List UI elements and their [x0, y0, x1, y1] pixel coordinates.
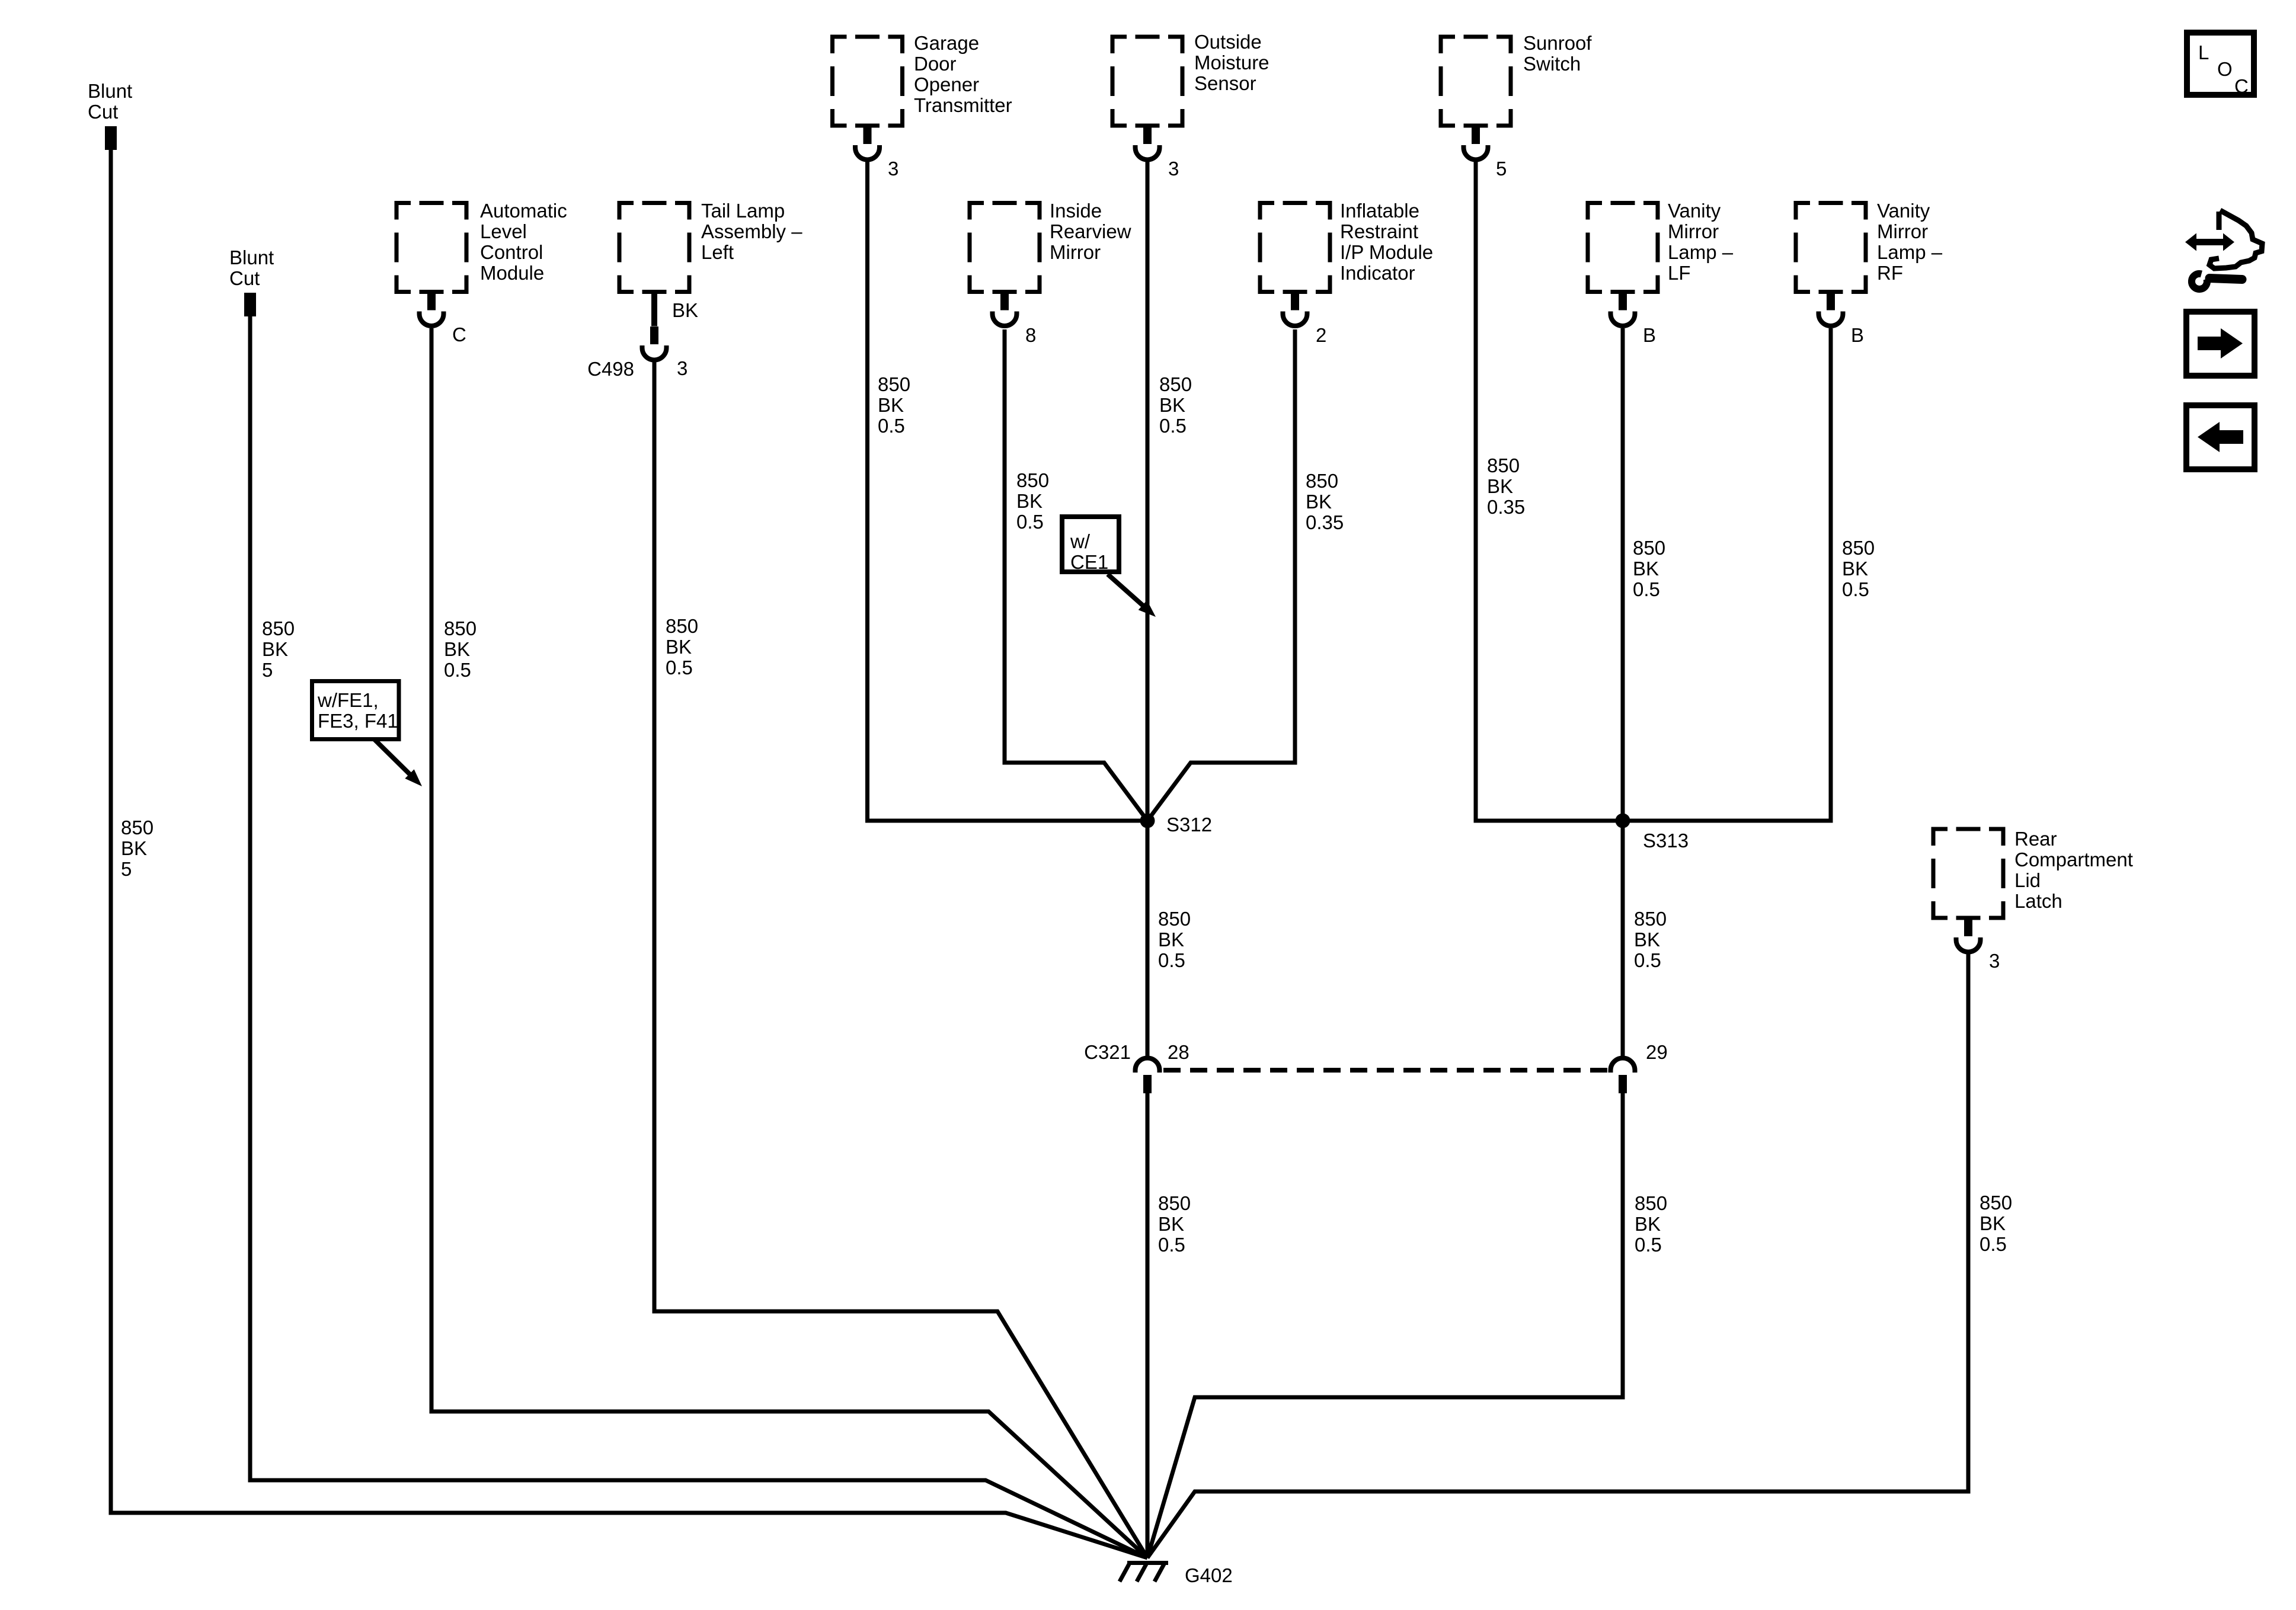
svg-text:850: 850 [121, 817, 154, 838]
svg-text:S313: S313 [1643, 830, 1689, 852]
svg-text:B: B [1851, 324, 1864, 346]
svg-text:850: 850 [1634, 908, 1667, 930]
svg-text:BK: BK [1634, 929, 1660, 950]
svg-text:S312: S312 [1166, 814, 1212, 836]
svg-text:0.5: 0.5 [1980, 1233, 2007, 1255]
svg-text:BK: BK [1016, 490, 1043, 512]
svg-text:850: 850 [1980, 1192, 2012, 1214]
svg-text:850: 850 [1158, 1192, 1191, 1214]
svg-text:Opener: Opener [914, 73, 979, 95]
svg-text:850: 850 [1635, 1192, 1667, 1214]
svg-text:BK: BK [1635, 1213, 1661, 1235]
svg-text:Inflatable: Inflatable [1340, 200, 1419, 222]
svg-text:0.5: 0.5 [878, 415, 905, 437]
svg-text:BK: BK [1842, 558, 1868, 580]
svg-text:0.5: 0.5 [1016, 511, 1044, 533]
svg-text:850: 850 [878, 373, 910, 395]
svg-text:Automatic: Automatic [480, 200, 567, 222]
svg-text:Transmitter: Transmitter [914, 94, 1012, 116]
svg-text:Outside: Outside [1194, 31, 1262, 53]
svg-text:FE3, F41: FE3, F41 [318, 710, 398, 732]
svg-text:Mirror: Mirror [1050, 241, 1101, 263]
svg-text:0.35: 0.35 [1487, 496, 1525, 518]
svg-text:Sunroof: Sunroof [1523, 32, 1592, 54]
svg-text:BK: BK [666, 636, 692, 658]
svg-text:BK: BK [1306, 491, 1332, 513]
svg-text:BK: BK [444, 638, 470, 660]
svg-text:850: 850 [1158, 908, 1191, 930]
svg-text:0.35: 0.35 [1306, 511, 1344, 533]
svg-text:5: 5 [1496, 158, 1507, 180]
svg-text:850: 850 [262, 617, 295, 639]
svg-text:850: 850 [1842, 537, 1875, 559]
svg-text:8: 8 [1025, 324, 1036, 346]
svg-text:C498: C498 [587, 358, 634, 380]
svg-text:0.5: 0.5 [1635, 1234, 1662, 1256]
svg-text:Lid: Lid [2014, 869, 2041, 891]
svg-text:0.5: 0.5 [1158, 949, 1185, 971]
svg-text:BK: BK [878, 394, 904, 416]
svg-text:Lamp –: Lamp – [1877, 241, 1943, 263]
svg-text:Control: Control [480, 241, 543, 263]
svg-text:Door: Door [914, 53, 957, 75]
svg-text:850: 850 [1159, 373, 1192, 395]
svg-text:Inside: Inside [1050, 200, 1102, 222]
svg-text:5: 5 [121, 858, 132, 880]
svg-text:BK: BK [1158, 1213, 1184, 1235]
svg-text:Switch: Switch [1523, 53, 1581, 75]
svg-text:0.5: 0.5 [1842, 578, 1869, 600]
svg-text:BK: BK [1159, 394, 1185, 416]
svg-text:0.5: 0.5 [1158, 1234, 1185, 1256]
svg-text:850: 850 [1306, 470, 1338, 492]
svg-text:0.5: 0.5 [666, 657, 693, 678]
svg-text:C: C [2234, 75, 2249, 97]
svg-text:Lamp –: Lamp – [1668, 241, 1734, 263]
svg-text:0.5: 0.5 [1633, 578, 1660, 600]
svg-text:BK: BK [262, 638, 288, 660]
svg-text:2: 2 [1316, 324, 1326, 346]
svg-text:Mirror: Mirror [1668, 220, 1719, 242]
svg-text:28: 28 [1168, 1041, 1189, 1063]
svg-text:3: 3 [1168, 158, 1179, 180]
svg-text:Vanity: Vanity [1668, 200, 1721, 222]
svg-text:Sensor: Sensor [1194, 72, 1256, 94]
svg-text:BK: BK [1487, 475, 1513, 497]
svg-text:L: L [2198, 41, 2209, 63]
svg-text:0.5: 0.5 [1634, 949, 1661, 971]
svg-text:3: 3 [1989, 950, 2000, 972]
svg-text:BK: BK [672, 299, 698, 321]
svg-text:5: 5 [262, 659, 273, 681]
svg-text:29: 29 [1646, 1041, 1668, 1063]
svg-text:Garage: Garage [914, 32, 979, 54]
svg-text:850: 850 [666, 615, 698, 637]
svg-text:C: C [452, 324, 466, 345]
svg-text:I/P Module: I/P Module [1340, 241, 1433, 263]
svg-text:0.5: 0.5 [1159, 415, 1187, 437]
svg-text:0.5: 0.5 [444, 659, 471, 681]
svg-text:Indicator: Indicator [1340, 262, 1415, 284]
svg-text:850: 850 [1016, 469, 1049, 491]
svg-text:O: O [2217, 58, 2233, 80]
svg-text:850: 850 [444, 617, 477, 639]
svg-text:Restraint: Restraint [1340, 220, 1418, 242]
svg-text:w/FE1,: w/FE1, [317, 689, 379, 711]
svg-text:G402: G402 [1185, 1564, 1233, 1586]
svg-text:Left: Left [701, 241, 734, 263]
svg-text:3: 3 [677, 357, 687, 379]
svg-text:CE1: CE1 [1070, 551, 1108, 573]
svg-text:Moisture: Moisture [1194, 52, 1269, 73]
svg-text:B: B [1643, 324, 1656, 346]
svg-text:Level: Level [480, 220, 527, 242]
svg-text:Cut: Cut [229, 267, 260, 289]
svg-text:Rearview: Rearview [1050, 220, 1131, 242]
svg-text:RF: RF [1877, 262, 1903, 284]
svg-text:Blunt: Blunt [229, 247, 274, 268]
svg-text:BK: BK [1633, 558, 1659, 580]
svg-text:850: 850 [1633, 537, 1665, 559]
svg-text:LF: LF [1668, 262, 1691, 284]
svg-text:Rear: Rear [2014, 828, 2057, 850]
svg-text:C321: C321 [1084, 1041, 1131, 1063]
svg-text:Vanity: Vanity [1877, 200, 1930, 222]
svg-text:Cut: Cut [88, 101, 118, 123]
svg-text:850: 850 [1487, 454, 1520, 476]
svg-text:Assembly –: Assembly – [701, 220, 802, 242]
svg-text:Mirror: Mirror [1877, 220, 1928, 242]
svg-text:Module: Module [480, 262, 544, 284]
svg-text:3: 3 [888, 158, 898, 180]
svg-text:BK: BK [1980, 1212, 2006, 1234]
svg-text:Blunt: Blunt [88, 80, 132, 102]
svg-text:BK: BK [121, 837, 147, 859]
svg-text:w/: w/ [1070, 530, 1091, 552]
svg-text:Tail Lamp: Tail Lamp [701, 200, 785, 222]
svg-text:Compartment: Compartment [2014, 849, 2133, 870]
svg-text:BK: BK [1158, 929, 1184, 950]
svg-text:Latch: Latch [2014, 890, 2062, 912]
